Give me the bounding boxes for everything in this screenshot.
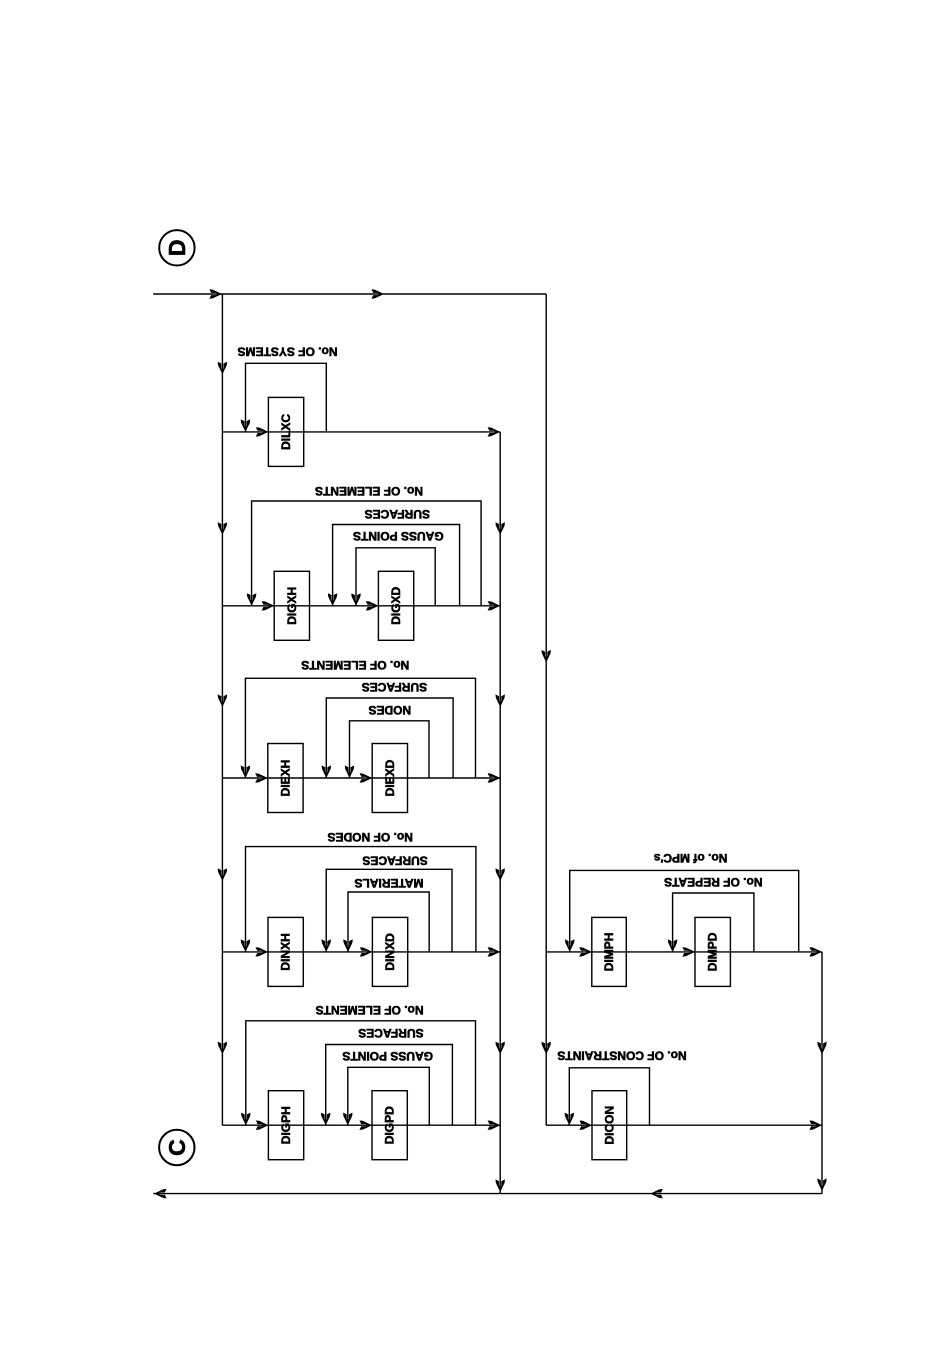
arrow at end of row 3 call line (488, 773, 501, 782)
box DIMPH (592, 917, 627, 986)
connector D (circled) (159, 230, 194, 265)
arrow at end of row 4 call line (488, 947, 501, 956)
arrow on loop MATERIALS return leg (row 4) (343, 939, 352, 952)
arrow on mid return vertical (496, 1042, 505, 1055)
svg-text:SURFACES: SURFACES (365, 507, 430, 521)
wire: bottom return line (153, 1193, 822, 1195)
svg-text:No. OF ELEMENTS: No. OF ELEMENTS (316, 1003, 424, 1017)
arrow on loop NODES return leg (row 3) (345, 765, 354, 778)
arrow at end of DICON call line (809, 1121, 822, 1130)
box DIGPD (372, 1091, 407, 1160)
arrow on loop No. OF CONSTRAINTS return leg (565, 1113, 574, 1126)
svg-text:SURFACES: SURFACES (362, 680, 427, 694)
wire: mid return vertical (499, 432, 501, 1194)
loop rectangle SURFACES (row 4) (326, 869, 452, 952)
loop rectangle SURFACES (row 5) (326, 1045, 453, 1126)
arrow on left spine above row 2 (218, 522, 227, 535)
svg-text:MATERIALS: MATERIALS (354, 876, 423, 890)
wire: top feed line (153, 293, 546, 295)
connector C (circled) (159, 1130, 194, 1165)
arrow on loop No. OF ELEMENTS return leg (row 2) (247, 593, 256, 606)
arrow into box DIMPD (682, 947, 695, 956)
wire: far right return vertical (821, 952, 823, 1194)
arrow into box DILXC (256, 427, 269, 436)
svg-text:No. OF NODES: No. OF NODES (328, 830, 413, 844)
loop rectangle SURFACES (row 2) (333, 525, 460, 606)
box DIEXD (372, 744, 407, 813)
svg-text:GAUSS POINTS: GAUSS POINTS (353, 529, 444, 543)
arrow into box DIGXD (366, 601, 379, 610)
arrow into box DIEXD (360, 773, 373, 782)
svg-text:No. of MPC's: No. of MPC's (654, 851, 728, 865)
arrow on loop SURFACES return leg (row 2) (328, 593, 337, 606)
svg-text:DINXD: DINXD (383, 933, 397, 971)
box DINXH (268, 917, 303, 986)
arrow on right branch vertical (542, 650, 551, 663)
arrow on loop No. OF REPEATS return leg (668, 939, 677, 952)
svg-text:DILXC: DILXC (279, 414, 293, 450)
loop rectangle GAUSS POINTS (row 2) (356, 548, 435, 606)
arrow into box DINXD (360, 947, 373, 956)
arrow at end of row 2 call line (488, 601, 501, 610)
arrow on mid return vertical (496, 868, 505, 881)
arrow on left spine above row 5 (218, 1042, 227, 1055)
loop rectangle MATERIALS (row 4) (348, 892, 429, 952)
arrow into box DIGPH (256, 1121, 269, 1130)
arrow at end of row 5 call line (488, 1121, 501, 1130)
wire: right branch vertical (to MPC column) (545, 294, 547, 1125)
wire: row 4 call line (222, 951, 500, 953)
svg-text:C: C (164, 1139, 190, 1156)
arrow on loop No. OF SYSTEMS return leg (row 1) (241, 419, 250, 432)
svg-text:DIMPH: DIMPH (602, 933, 616, 972)
svg-text:DIGXD: DIGXD (389, 586, 403, 624)
svg-text:DIEXD: DIEXD (383, 759, 397, 796)
svg-text:DIMPD: DIMPD (706, 932, 720, 971)
loop rectangle No. OF REPEATS (673, 893, 754, 952)
loop rectangle No. OF CONSTRAINTS (569, 1068, 649, 1125)
arrow on mid return vertical (496, 694, 505, 707)
arrow on loop SURFACES return leg (row 4) (322, 939, 331, 952)
wire: row 1 call line (222, 431, 500, 433)
svg-text:DIGPH: DIGPH (279, 1106, 293, 1144)
arrow on left spine above row 3 (218, 694, 227, 707)
arrow on loop No. OF NODES return leg (row 4) (241, 939, 250, 952)
box DIGPH (268, 1091, 303, 1160)
arrow at left end of bottom return line (154, 1189, 167, 1198)
arrow on right branch vertical above DICON row (542, 1042, 551, 1055)
svg-text:GAUSS POINTS: GAUSS POINTS (342, 1049, 433, 1063)
arrow on loop GAUSS POINTS return leg (row 2) (351, 593, 360, 606)
arrow on bottom return line mid-segment (650, 1189, 663, 1198)
box DILXC (268, 397, 303, 466)
box DINXD (372, 917, 407, 986)
arrow on top feed line mid-segment (371, 289, 384, 298)
arrow on loop No. OF ELEMENTS return leg (row 5) (241, 1113, 250, 1126)
loop rectangle No. OF ELEMENTS (row 2) (252, 501, 482, 606)
arrow into box DIGXH (262, 601, 275, 610)
wire: row 2 call line (222, 605, 500, 607)
arrow at end of DIMPH call line (809, 947, 822, 956)
arrow into box DIMPH (579, 947, 592, 956)
loop rectangle No. OF NODES (row 4) (246, 847, 476, 952)
svg-text:D: D (164, 239, 190, 256)
svg-text:DIEXH: DIEXH (278, 760, 292, 797)
loop rectangle SURFACES (row 3) (326, 698, 453, 778)
wire: row 5 call line (222, 1124, 500, 1126)
loop rectangle No. of MPC's (570, 870, 799, 952)
svg-text:SURFACES: SURFACES (358, 1026, 423, 1040)
arrow on mid return vertical at bottom line (496, 1179, 505, 1192)
arrow on far right return vertical (817, 1042, 826, 1055)
wire: left spine vertical (221, 294, 223, 1125)
wire: DIMPH call line (546, 951, 822, 953)
box DIGXD (378, 571, 413, 640)
box DIEXH (268, 744, 303, 813)
arrow into box DIEXH (255, 773, 268, 782)
svg-text:DINXH: DINXH (279, 933, 293, 970)
arrow into box DINXH (255, 947, 268, 956)
svg-text:NODES: NODES (368, 703, 411, 717)
arrow on left spine above row 4 (218, 868, 227, 881)
arrow into box DIGPD (359, 1121, 372, 1130)
arrow on far right return vertical at bottom line (817, 1178, 826, 1191)
arrow on mid return vertical (496, 522, 505, 535)
box DIGXH (274, 571, 309, 640)
svg-text:No. OF ELEMENTS: No. OF ELEMENTS (301, 658, 409, 672)
loop rectangle No. OF ELEMENTS (row 3) (245, 678, 475, 778)
svg-text:DICON: DICON (602, 1106, 616, 1145)
arrow on loop SURFACES return leg (row 3) (322, 765, 331, 778)
arrow on left spine above row 1 (218, 362, 227, 375)
arrow on loop SURFACES return leg (row 5) (321, 1113, 330, 1126)
wire: row 3 call line (222, 777, 500, 779)
loop rectangle No. OF ELEMENTS (row 5) (246, 1021, 476, 1125)
svg-text:DIGPD: DIGPD (383, 1106, 397, 1144)
arrow on top feed line at spine junction (209, 289, 222, 298)
loop rectangle No. OF SYSTEMS (row 1) (246, 363, 327, 432)
svg-text:DIGXH: DIGXH (285, 587, 299, 625)
arrow on loop No. OF ELEMENTS return leg (row 3) (241, 765, 250, 778)
svg-text:No. OF REPEATS: No. OF REPEATS (664, 875, 762, 889)
loop rectangle GAUSS POINTS (row 5) (348, 1067, 430, 1125)
box DIMPD (695, 917, 730, 986)
arrow on loop GAUSS POINTS return leg (row 5) (343, 1113, 352, 1126)
svg-text:SURFACES: SURFACES (362, 854, 427, 868)
box DICON (592, 1091, 627, 1160)
svg-text:No. OF SYSTEMS: No. OF SYSTEMS (237, 344, 337, 358)
loop rectangle NODES (row 3) (350, 721, 430, 778)
svg-text:No. OF CONSTRAINTS: No. OF CONSTRAINTS (557, 1048, 686, 1062)
arrow on loop No. of MPC's return leg (565, 939, 574, 952)
wire: DICON call line (546, 1124, 822, 1126)
arrow into box DICON (579, 1121, 592, 1130)
arrow at end of row 1 call line (488, 427, 501, 436)
svg-text:No. OF ELEMENTS: No. OF ELEMENTS (315, 484, 423, 498)
